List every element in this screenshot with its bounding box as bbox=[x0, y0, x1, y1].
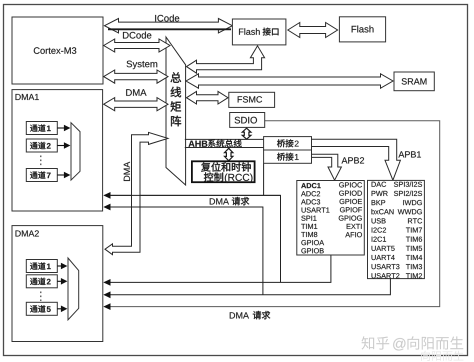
Flash interface-Flash arrow bbox=[288, 23, 338, 38]
block Flash interface bbox=[232, 19, 286, 45]
vertical DMA label bbox=[124, 162, 130, 181]
wire: SDIO to DMA2 request loop bbox=[105, 121, 440, 307]
DMA1 channel arrow 7 bbox=[57, 174, 64, 176]
label DMA request bottom bbox=[230, 312, 235, 318]
block bridge2 桥接2 bbox=[264, 137, 312, 150]
APB1 bus channel arrow bbox=[312, 139, 401, 180]
DMA2 channel box 通道1 bbox=[26, 260, 57, 273]
label APB2 bbox=[342, 157, 348, 163]
wire: APB2 peripherals DMA request bbox=[105, 255, 331, 283]
label DMA bbox=[126, 89, 132, 96]
label AHB system bus bbox=[189, 141, 195, 147]
label ICode bbox=[136, 15, 176, 22]
wire: APB1 peripherals DMA request bbox=[105, 279, 391, 295]
DMA2 ellipsis bbox=[40, 292, 42, 302]
matrix-Flash interface elbow arrow bbox=[187, 46, 265, 73]
DMA1 channel arrow 1 bbox=[57, 127, 64, 129]
block DMA2 bbox=[12, 226, 103, 342]
AHB system bus band bbox=[185, 138, 264, 140]
DMA2 channel box 通道2 bbox=[26, 275, 57, 288]
wire: branch up to DMA1 (DMA request line B) bbox=[105, 207, 263, 295]
block APB1 peripherals list bbox=[368, 180, 425, 278]
block SDIO bbox=[230, 113, 265, 128]
block SRAM bbox=[394, 72, 434, 91]
DMA2-bus matrix elbow arrow bbox=[105, 132, 168, 254]
DMA2 channel arrow 1 bbox=[57, 265, 61, 267]
block APB2 peripherals list bbox=[297, 181, 365, 256]
DMA2 channel arrow 2 bbox=[57, 280, 61, 282]
label System bbox=[127, 61, 132, 68]
block FSMC bbox=[229, 92, 275, 107]
DMA1 channel arrow 2 bbox=[57, 145, 64, 147]
bus matrix 总线矩阵 bbox=[166, 37, 186, 185]
label DMA request upper bbox=[210, 198, 215, 204]
wire: bridge1 stub down to line A bbox=[263, 163, 265, 195]
block RCC 复位和时钟控制 bbox=[192, 161, 255, 182]
label APB1 bbox=[398, 151, 404, 157]
DMA1 funnel bbox=[71, 123, 80, 180]
label DCode bbox=[123, 32, 129, 39]
APB2 bus channel arrow bbox=[312, 154, 342, 180]
wire crossing segments bbox=[110, 194, 281, 196]
block DMA1 bbox=[12, 90, 103, 211]
ICode bus arrow bbox=[105, 19, 233, 33]
DMA2 channel box 通道5 bbox=[26, 302, 57, 315]
DCode bus arrow bbox=[104, 39, 170, 52]
watermark 知乎@向阳而生 bbox=[361, 336, 374, 349]
System bus arrow bbox=[104, 70, 168, 83]
DMA bus arrow bbox=[104, 98, 168, 111]
block Cortex-M3 bbox=[12, 17, 103, 84]
DMA1 channel box 通道1 bbox=[26, 122, 57, 135]
watermark ghost bbox=[421, 351, 430, 361]
DMA1 ellipsis bbox=[40, 156, 42, 167]
DMA2 channel arrow 5 bbox=[57, 308, 61, 310]
AHB-RCC vertical arrow bbox=[225, 148, 233, 161]
SDIO-AHB vertical arrow bbox=[242, 128, 251, 139]
DMA2 funnel bbox=[68, 258, 79, 320]
DMA1 channel box 通道7 bbox=[26, 169, 57, 182]
matrix-SRAM arrow bbox=[186, 74, 393, 88]
block bridge1 桥接1 bbox=[264, 150, 312, 163]
wire: branch up to DMA1 (line A) bbox=[105, 195, 281, 282]
DMA1 channel box 通道2 bbox=[26, 139, 57, 152]
matrix-FSMC arrow bbox=[187, 91, 229, 104]
block Flash bbox=[339, 17, 385, 42]
